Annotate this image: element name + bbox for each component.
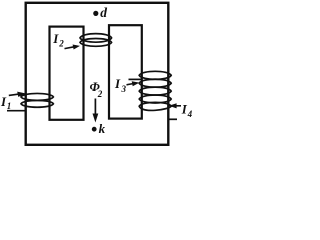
right window (109, 25, 142, 118)
svg-text:1: 1 (7, 101, 12, 111)
svg-text:d: d (100, 5, 107, 20)
left window (50, 27, 84, 120)
winding on right limb (loop 1) (139, 71, 171, 79)
svg-text:I: I (114, 76, 121, 91)
svg-text:2: 2 (58, 39, 64, 49)
svg-text:3: 3 (121, 84, 127, 94)
current I4 arrow (169, 103, 181, 108)
winding I4 lower lead wire stub (169, 118, 178, 120)
current I1 arrow lead (9, 92, 27, 97)
svg-text:4: 4 (187, 109, 193, 119)
flux Phi2 arrow down centre limb (93, 99, 99, 123)
winding I3 lead wire into right window (129, 78, 143, 80)
svg-text:k: k (99, 121, 106, 136)
current I3 arrow (127, 81, 140, 86)
svg-text:I: I (52, 31, 59, 46)
node d dot (93, 11, 98, 16)
svg-text:2: 2 (97, 89, 103, 99)
winding on right limb (loop 2) (139, 79, 171, 87)
current I2 arrow (65, 45, 81, 50)
winding W1 on left limb (loop 1) (21, 93, 53, 100)
winding W2 on centre limb (loop 2) (80, 39, 112, 47)
winding W1 lower lead wire (7, 110, 25, 112)
node k dot (92, 127, 97, 132)
core outer outline (26, 3, 169, 145)
winding on right limb (loop 5) (139, 102, 171, 110)
winding on right limb (loop 3) (139, 87, 171, 95)
winding W2 on centre limb (loop 1) (80, 34, 112, 43)
winding W1 on left limb (loop 2) (21, 100, 53, 107)
winding on right limb (loop 4) (139, 95, 171, 103)
